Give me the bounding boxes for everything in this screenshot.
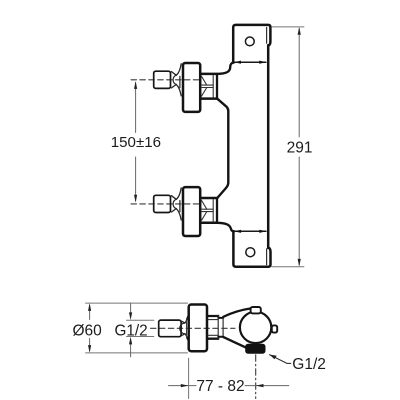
valve body top: bottom edge xyxy=(201,97,218,100)
G1/2 knob extension top xyxy=(127,319,154,321)
dimension 150±16 arrow up xyxy=(134,81,137,89)
knob top valve xyxy=(154,71,171,88)
side collar bottom edge xyxy=(218,336,223,338)
extension line diameter 60 bottom xyxy=(86,352,188,354)
svg-text:G1/2: G1/2 xyxy=(292,356,326,373)
valve body top: top edge xyxy=(201,73,218,76)
svg-text:291: 291 xyxy=(287,139,313,156)
side view axis dashed xyxy=(151,327,236,329)
side nut inner flats xyxy=(208,320,218,336)
side cone to body top xyxy=(223,309,250,317)
valve body top: corner chamfers xyxy=(202,76,207,96)
knob bottom valve xyxy=(154,195,171,212)
bell neck bottom valve xyxy=(172,196,177,212)
side nut right edge xyxy=(217,315,219,339)
dimension 150±16 line lower segment xyxy=(135,157,137,201)
bell ball arc bottom valve xyxy=(173,199,176,208)
side knob xyxy=(159,320,181,337)
bar tube right edge xyxy=(267,45,270,248)
valve body top: inner flats xyxy=(202,85,214,87)
screw hole top bracket xyxy=(245,37,254,46)
valve body bottom: right edge xyxy=(216,199,218,223)
bell cone top valve xyxy=(176,64,181,96)
valve body bottom: top edge xyxy=(201,197,218,200)
dimension 77-82 arrow left-pointing xyxy=(256,384,264,387)
leader arrow to outlet xyxy=(270,355,291,364)
outlet axis dash-dot xyxy=(255,355,257,399)
svg-text:77 - 82: 77 - 82 xyxy=(196,378,244,395)
escutcheon flange top valve xyxy=(183,63,200,112)
G1/2 knob extension bottom xyxy=(127,336,154,338)
dimension 291 line lower segment xyxy=(298,157,300,265)
tube seam line top bracket xyxy=(266,27,268,43)
body outline between valves xyxy=(217,99,228,198)
side bell ball arc xyxy=(180,323,185,334)
svg-text:150±16: 150±16 xyxy=(111,134,161,151)
valve body top: inner vertical xyxy=(212,75,214,97)
bell cone base edge top valve xyxy=(179,76,181,87)
extension line 291 top xyxy=(272,26,304,28)
side bell neck xyxy=(182,321,185,335)
bracket bottom upper edge with arrows xyxy=(235,230,266,232)
side bell cone xyxy=(185,317,188,340)
valve body bottom: inner vertical xyxy=(212,200,214,222)
side escutcheon flange xyxy=(189,305,207,352)
G1/2 upper arrow xyxy=(130,303,132,313)
top tab on circle xyxy=(251,307,261,313)
valve body bottom: bottom edge xyxy=(201,221,218,224)
centerline top valve axis xyxy=(131,79,201,81)
valve body bottom: inner flats xyxy=(202,209,214,211)
dimension 77-82 right tail xyxy=(256,385,289,387)
dimension 77-82 arrow right-pointing xyxy=(181,384,189,387)
extension line 77-82 left xyxy=(188,358,190,398)
dimension 291 arrow down xyxy=(298,259,301,267)
side cone to body bottom xyxy=(223,337,246,348)
bell neck top valve xyxy=(172,72,177,88)
dimension 150±16 line upper segment xyxy=(135,83,137,133)
svg-text:G1/2: G1/2 xyxy=(115,322,148,339)
side collar right edge xyxy=(222,317,224,338)
extension line 291 bottom xyxy=(272,266,304,268)
bell cone bottom valve xyxy=(176,188,181,220)
dimension diameter60 lower arrow xyxy=(89,339,91,352)
valve body top: right edge xyxy=(216,75,218,99)
bell ball arc top valve xyxy=(173,75,176,84)
svg-text:Ø60: Ø60 xyxy=(73,322,103,339)
side collar top edge xyxy=(218,317,223,319)
escutcheon flange bottom valve xyxy=(183,187,200,236)
wall bracket top xyxy=(233,25,270,63)
body S-curve bottom valve to bracket xyxy=(217,223,234,232)
dimension diameter60 upper arrow xyxy=(89,305,91,320)
extension line diameter 60 top xyxy=(86,302,188,304)
dimension 77-82 line left tail xyxy=(169,385,189,387)
dimension 77-82 stub left xyxy=(189,385,196,387)
wall bracket bottom xyxy=(233,231,270,266)
dimension 291 arrow up xyxy=(298,27,301,35)
side nut top edge xyxy=(208,315,218,317)
body S-curve bracket to top valve xyxy=(218,62,234,74)
dimension 291 line upper segment xyxy=(298,29,300,137)
bracket top lower edge with arrows xyxy=(235,61,266,63)
right tab on circle xyxy=(272,325,277,332)
dimension 77-82 stub right xyxy=(245,385,255,387)
G1/2 lower arrow xyxy=(130,344,132,357)
valve body bottom: corner chamfers xyxy=(202,200,207,220)
side bell cone base edge xyxy=(186,318,188,338)
outlet fitting (solid) xyxy=(245,344,265,354)
tube seam line bottom bracket xyxy=(266,249,268,265)
screw hole bottom bracket xyxy=(246,248,255,257)
dimension 150±16 arrow down xyxy=(134,195,137,203)
body tube circle xyxy=(240,312,271,343)
bell cone base edge bottom valve xyxy=(179,201,181,212)
centerline bottom valve axis xyxy=(131,203,201,205)
side nut bottom edge xyxy=(208,338,218,340)
